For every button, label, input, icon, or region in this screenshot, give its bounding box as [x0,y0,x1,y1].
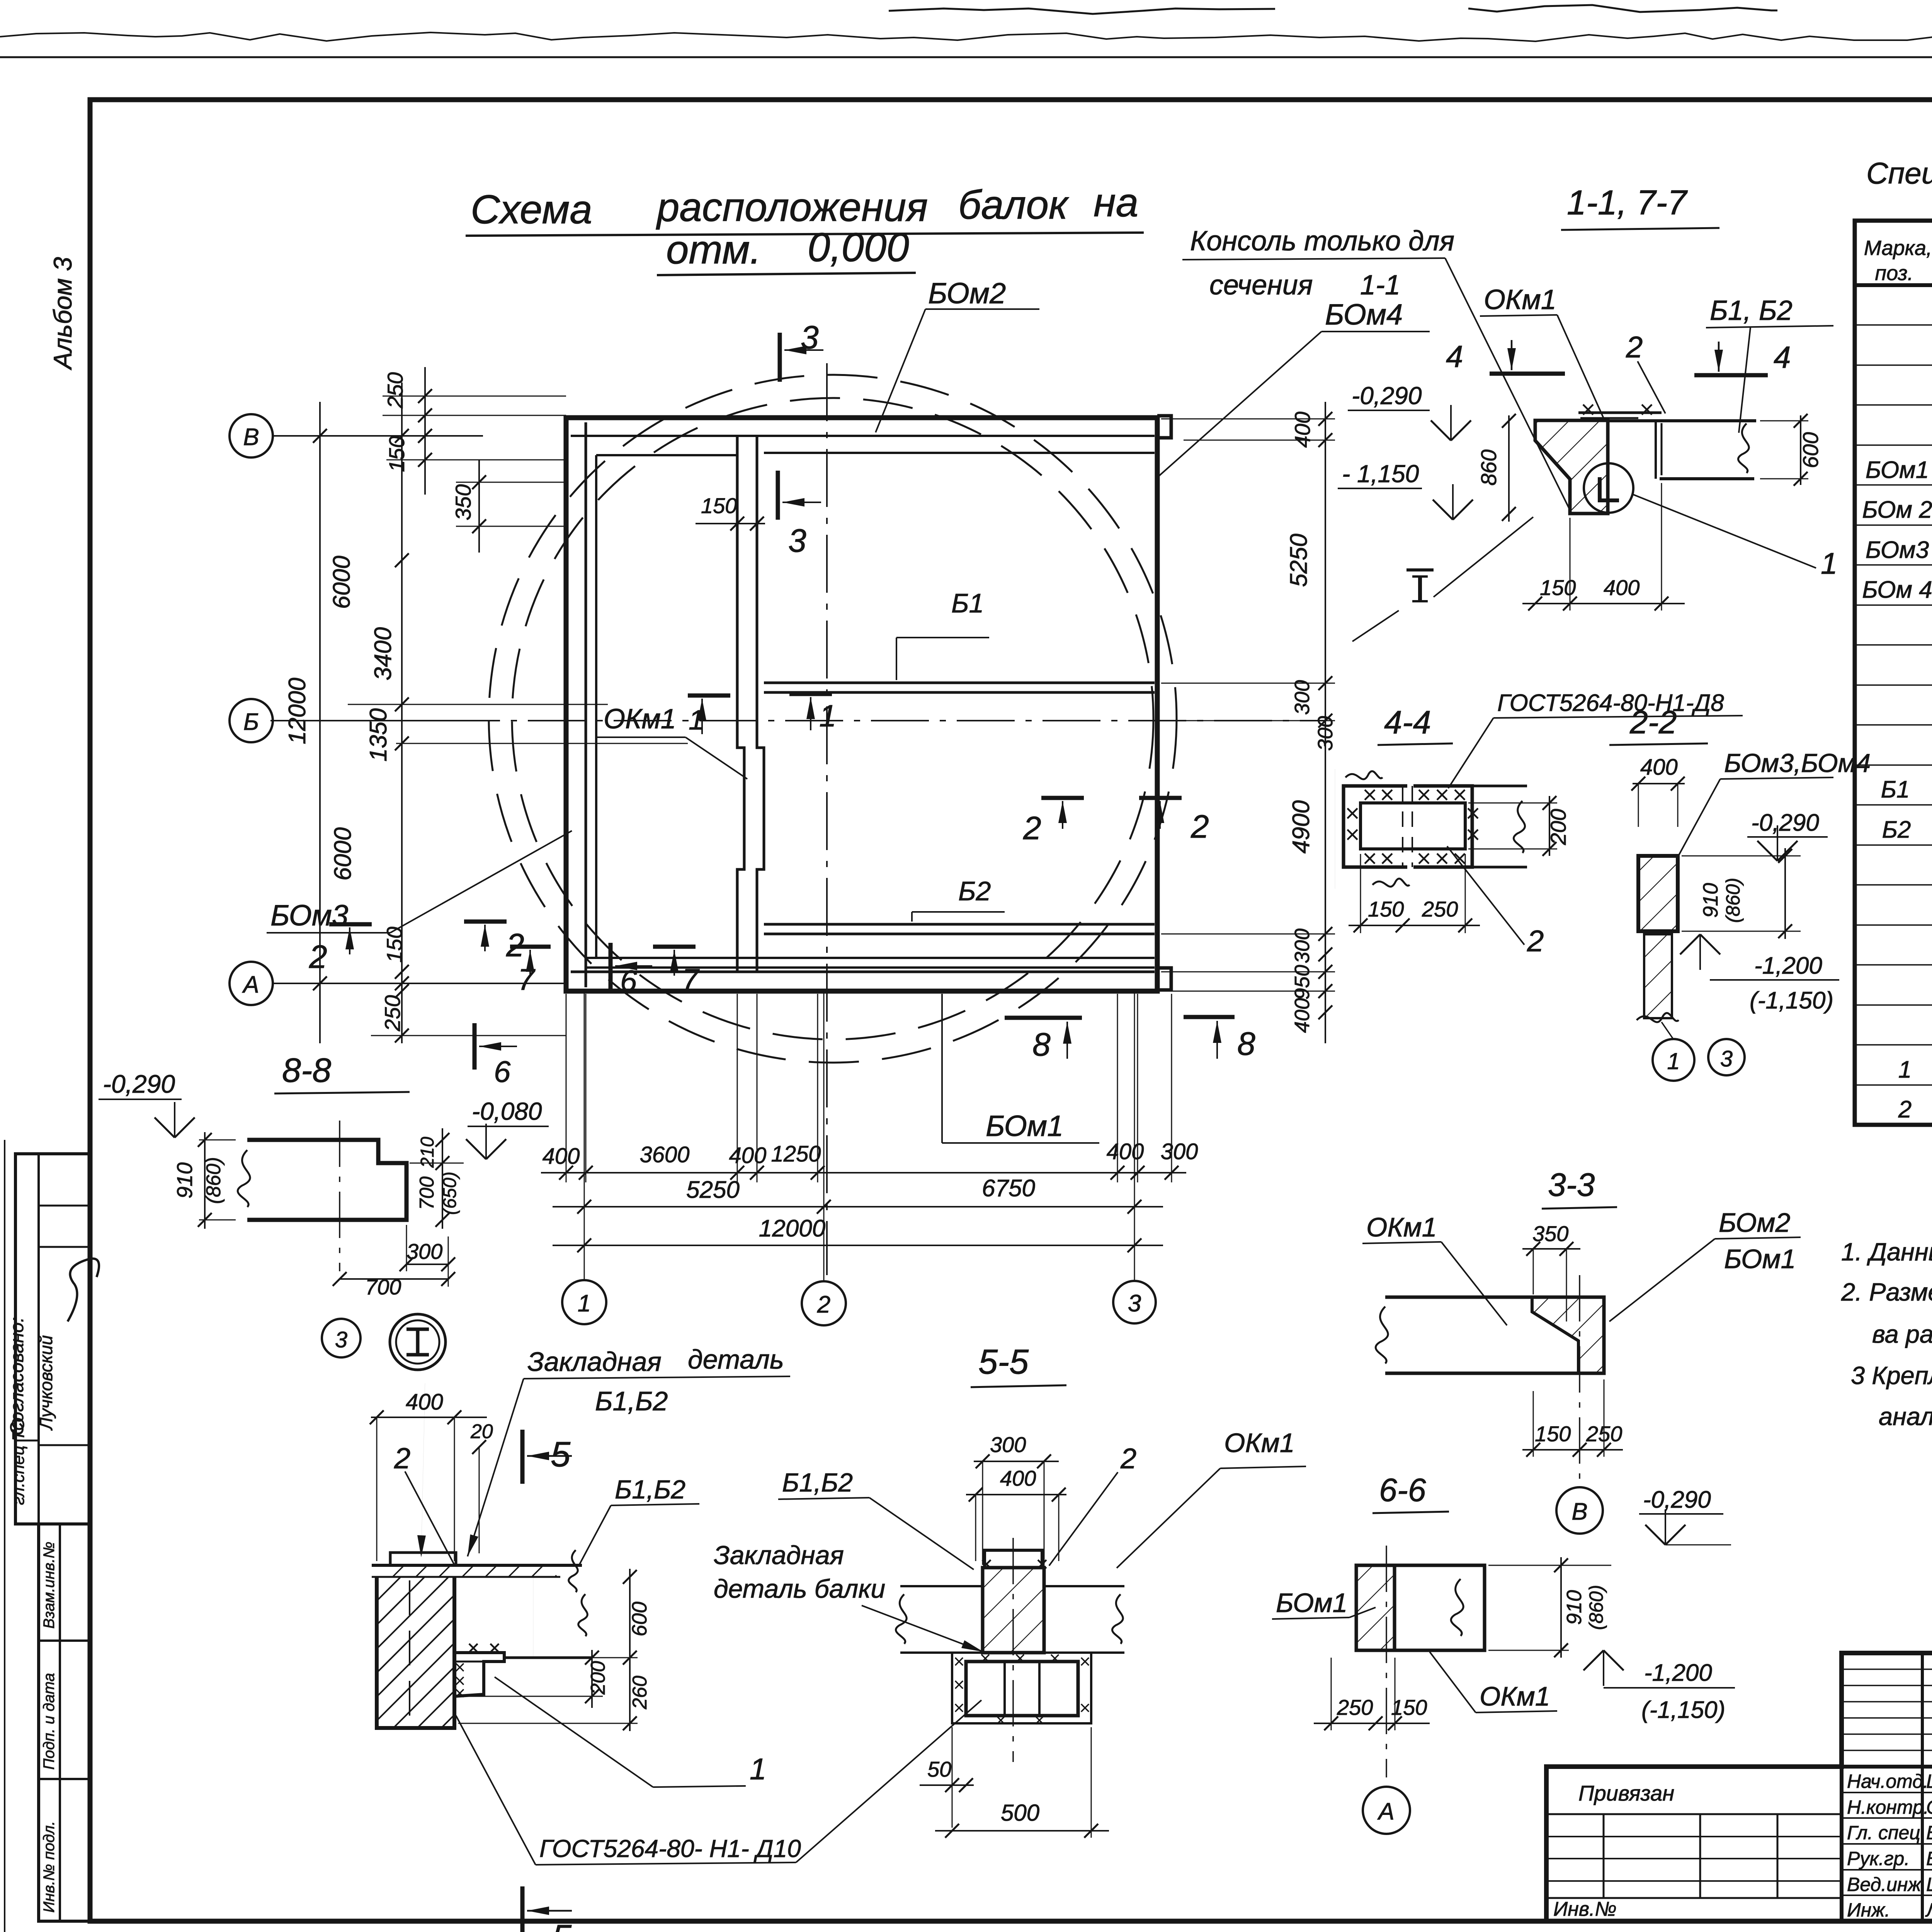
1-1 rigel inner lines [1655,421,1657,479]
svg-text:250: 250 [383,372,407,408]
svg-text:910: 910 [172,1162,197,1198]
plan: top wall inner line [571,435,1155,437]
axis line V [272,435,483,437]
svg-text:2. Размеры и отметки в с: 2. Размеры и отметки в скобках для откры… [1841,1278,1932,1306]
svg-text:Б1,Б2: Б1,Б2 [782,1468,853,1497]
svg-text:Альбом 3: Альбом 3 [48,257,77,371]
bottom extension lines [566,994,567,1182]
1-1 concrete console hatched [1535,420,1608,514]
1-1 top plate [1578,412,1662,414]
6-6 axis circle A [1363,1787,1410,1834]
svg-text:БОм1: БОм1 [1276,1588,1347,1618]
svg-text:400: 400 [1290,412,1315,447]
svg-text:300: 300 [990,1432,1026,1457]
4-4 dim 200 [1549,796,1550,856]
svg-text:БОм 4: БОм 4 [1862,577,1932,603]
bottom dim row 1 [541,1172,1186,1173]
svg-text:8: 8 [1237,1026,1255,1062]
section marker 6 outside [473,1023,477,1070]
beam B1 plan [764,682,1155,684]
svg-text:5: 5 [551,1435,571,1474]
plan: top-right wall tab [1157,416,1171,438]
svg-text:Привязан: Привязан [1578,1781,1674,1805]
svg-text:БОм4: БОм4 [1325,298,1403,331]
2-2 extension lines [1638,784,1639,827]
svg-text:4: 4 [1774,340,1791,374]
svg-text:Лучковский: Лучковский [36,1335,56,1431]
svg-text:Рук.гр.: Рук.гр. [1847,1848,1910,1869]
svg-text:БОм3,БОм4: БОм3,БОм4 [1724,748,1871,778]
section marker 2 outside left [329,922,372,927]
svg-text:БОм2: БОм2 [928,277,1006,310]
svg-text:БОм1: БОм1 [1866,457,1929,483]
node beam edge right [504,1656,591,1659]
right extension lines [1161,418,1335,420]
svg-text:деталь: деталь [688,1344,784,1374]
axis circle 1 [562,1280,606,1324]
svg-text:(650): (650) [440,1172,460,1215]
section marker 7 inner [653,945,696,949]
1-1 dim 600 [1800,415,1801,485]
svg-text:В: В [243,424,259,451]
svg-text:2-2: 2-2 [1629,704,1677,740]
svg-text:500: 500 [1001,1800,1039,1826]
svg-text:2: 2 [1190,808,1209,845]
svg-text:2: 2 [1898,1096,1912,1123]
section marker 1 right [789,692,832,696]
svg-text:-1,200: -1,200 [1754,952,1822,979]
svg-text:300: 300 [1291,680,1314,715]
svg-text:200: 200 [587,1661,609,1695]
svg-text:6: 6 [620,964,637,998]
2-2 dim 910 (860) [1784,848,1786,939]
node hatched wall column [377,1577,454,1728]
svg-text:910: 910 [1563,1590,1586,1625]
3-3 centerline [1579,1275,1580,1482]
svg-text:ГОСТ5264-80-Н1-Д8: ГОСТ5264-80-Н1-Д8 [1497,690,1724,716]
svg-text:700: 700 [365,1275,401,1299]
svg-text:700: 700 [416,1177,438,1210]
8-8 node circle I [390,1314,446,1370]
svg-text:(-1,150): (-1,150) [1641,1697,1725,1723]
svg-text:ОКм1: ОКм1 [1480,1681,1550,1711]
svg-text:6000: 6000 [328,556,355,609]
svg-text:2: 2 [1527,924,1544,958]
svg-text:3: 3 [335,1327,347,1352]
svg-text:400: 400 [1107,1139,1144,1164]
4-4 dims 150 250 [1349,925,1480,926]
svg-text:6-6: 6-6 [1379,1472,1426,1508]
svg-text:Б2: Б2 [958,876,991,906]
svg-text:Лактионов: Лактионов [1925,1899,1932,1921]
svg-text:910: 910 [1699,883,1722,918]
svg-text:300: 300 [1291,929,1314,963]
svg-text:Сокольская: Сокольская [1926,1796,1932,1818]
svg-text:отм.: отм. [666,227,761,272]
svg-text:Б1, Б2: Б1, Б2 [1710,295,1793,326]
svg-text:ОКм1: ОКм1 [1224,1428,1295,1458]
svg-text:Инж.: Инж. [1847,1899,1890,1921]
svg-text:5: 5 [552,1918,572,1932]
svg-text:- 1,150: - 1,150 [1342,460,1419,488]
1-1 dims 150 400 [1522,603,1685,604]
section marker 8 below right [1184,1015,1235,1019]
svg-text:-0,290: -0,290 [1643,1486,1711,1513]
4-4 inner plate [1361,803,1465,849]
4-4 outer block [1344,786,1407,867]
svg-text:Власенко: Власенко [1926,1822,1932,1844]
svg-text:250: 250 [1337,1695,1373,1719]
4-4 joint dashed [1402,786,1403,867]
svg-text:гл.спец ТО: гл.спец ТО [9,1418,28,1505]
svg-text:350: 350 [1532,1221,1568,1246]
svg-text:2: 2 [1120,1442,1136,1475]
pos 3 circle left [341,1338,342,1338]
svg-text:Б1,Б2: Б1,Б2 [615,1475,685,1504]
right dim line [1325,402,1326,1043]
plan: bottom-right wall tab [1157,968,1171,990]
5-5 column hatched [983,1568,1044,1653]
6-6 dim 910 (860) [1560,1557,1562,1658]
4-4 dim line 4900 left (plan dims shared) [1335,769,1335,889]
node dims 600 200 260 [629,1569,631,1665]
axis line B [272,720,483,721]
plan: beam line bottom [586,957,1155,959]
section marker 2 right room [1041,796,1084,800]
approval stamp upper [15,1154,90,1524]
svg-text:50: 50 [927,1757,951,1781]
6-6 hatched column [1356,1565,1395,1650]
svg-text:3600: 3600 [639,1142,689,1167]
6-6 wall [1356,1565,1485,1650]
svg-text:1: 1 [1821,546,1837,580]
svg-text:400: 400 [543,1144,580,1169]
8-8 dims left 910(860) [199,1139,236,1141]
svg-text:БОм1: БОм1 [1724,1244,1796,1274]
svg-text:Б: Б [243,709,259,735]
svg-text:В: В [1571,1498,1587,1525]
svg-text:250: 250 [380,995,405,1031]
node marker 5 bottom [520,1886,525,1932]
1-1 node circle [1584,463,1633,513]
svg-text:7: 7 [518,963,536,997]
2-2 elevation -1.200 [1680,934,1700,954]
5-5 beam lines right [1044,1585,1124,1587]
svg-text:4-4: 4-4 [1384,704,1431,740]
5-5 beam lines left [900,1585,983,1587]
svg-text:1-1: 1-1 [1360,270,1400,301]
plan: centerline horizontal [270,720,1325,721]
svg-text:5-5: 5-5 [978,1343,1029,1381]
spec table grid [1855,221,1932,1125]
section marker 1 left [688,694,730,698]
beam B2 plan [764,923,1155,926]
svg-text:400: 400 [1640,755,1678,780]
svg-text:3: 3 [1720,1046,1733,1071]
svg-text:Инв.№ подл.: Инв.№ подл. [41,1821,58,1913]
5-5 top closure plate [985,1550,1042,1568]
svg-text:-0,290: -0,290 [103,1070,175,1098]
svg-text:ОКм1: ОКм1 [1366,1212,1437,1242]
6-6 dims 250 150 [1314,1723,1430,1724]
section marker 6 inner [609,943,613,989]
svg-text:860: 860 [1476,449,1501,485]
svg-text:400: 400 [1000,1466,1036,1490]
svg-text:Б2: Б2 [1882,816,1911,843]
svg-text:ва работ ( сборно- монолитный: ва работ ( сборно- монолитный вариант). [1872,1320,1932,1348]
axis circle B [230,699,273,742]
svg-text:2: 2 [1626,330,1643,364]
svg-text:150: 150 [1391,1695,1427,1719]
svg-text:5250: 5250 [686,1177,740,1203]
svg-text:20: 20 [470,1420,493,1443]
3-3 axis circle V [1556,1487,1603,1534]
8-8 wall section [247,1140,406,1220]
svg-text:12000: 12000 [759,1215,825,1242]
svg-text:8: 8 [1032,1026,1051,1063]
axis circle 2 [802,1281,846,1325]
title block staff rows [1842,1792,1932,1793]
svg-text:ОКм1: ОКм1 [1484,284,1556,315]
paper edge left [4,1140,5,1932]
svg-text:3: 3 [1128,1290,1141,1317]
node corbel bracket [454,1653,504,1696]
svg-text:поз.: поз. [1875,262,1913,285]
left dim line 6000/3400/1350/6000 [401,383,403,1043]
section marker 2 left room [464,920,507,924]
scan edge top [0,32,1932,41]
svg-text:(860): (860) [1722,878,1744,923]
4-4 weld x marks [1365,790,1375,800]
svg-text:12000: 12000 [284,678,311,744]
plan: partition wall with jog [737,436,744,972]
svg-text:Н.контр.: Н.контр. [1847,1796,1929,1818]
privyazan table [1546,1813,1842,1815]
svg-text:Консоль только для: Консоль только для [1190,226,1454,257]
node slab lines [372,1564,582,1567]
svg-text:Подп. и дата: Подп. и дата [41,1673,58,1770]
svg-text:Шейко: Шейко [1926,1770,1932,1792]
svg-text:БОм 2: БОм 2 [1862,497,1932,523]
svg-text:6750: 6750 [982,1175,1035,1202]
section marker 3 top [778,333,782,382]
svg-text:балок: балок [958,182,1069,228]
plan: bottom wall inner line [571,971,1155,973]
svg-text:1: 1 [819,699,837,733]
svg-text:5250: 5250 [1286,534,1312,587]
svg-text:Б1,Б2: Б1,Б2 [595,1386,668,1416]
svg-text:А: А [1377,1798,1394,1825]
svg-text:150: 150 [384,436,409,472]
plan: left room beam line BOm3 [595,455,597,958]
svg-text:600: 600 [628,1602,651,1636]
left extension lines [383,396,566,397]
svg-text:на: на [1094,180,1138,225]
5-5 weld x marks [955,1658,963,1665]
svg-text:Закладная: Закладная [527,1347,662,1377]
1-1 beam slab [1608,419,1756,422]
8-8 dim 300 [406,1264,448,1265]
left dim line 12000 [319,402,321,1043]
svg-text:1: 1 [1667,1048,1680,1074]
svg-text:аналогично узлу I: аналогично узлу I [1879,1402,1932,1430]
svg-text:210: 210 [417,1137,438,1168]
svg-text:деталь балки: деталь балки [714,1574,885,1604]
svg-text:Боровик: Боровик [1926,1848,1932,1869]
svg-text:Марка,: Марка, [1864,236,1932,260]
svg-text:3: 3 [801,319,819,355]
svg-text:3-3: 3-3 [1548,1167,1595,1203]
bottom dim row 2 [553,1206,1163,1207]
svg-text:1. Данный лист рассматривать: 1. Данный лист рассматривать совместно с… [1841,1238,1932,1266]
svg-text:2: 2 [394,1442,410,1475]
plan: centerline vertical axis 2 [826,363,828,1275]
svg-text:1: 1 [1898,1056,1912,1083]
title block mini grid [1842,1668,1932,1670]
svg-text:400: 400 [1291,998,1314,1033]
svg-text:3 Крепление балок Б1 и Б2: 3 Крепление балок Б1 и Б2 к БОм 3 и БОм … [1851,1361,1932,1389]
svg-text:БОм1: БОм1 [986,1110,1063,1143]
svg-text:150: 150 [701,493,737,518]
bottom dim row 3 [553,1245,1163,1246]
8-8 dims right 210 700(650) [410,1163,464,1164]
title block outline [1546,1653,1932,1921]
plan: left wall inner line [585,422,587,987]
svg-text:1250: 1250 [771,1141,821,1167]
svg-text:350: 350 [451,484,475,520]
svg-text:(-1,150): (-1,150) [1750,987,1833,1014]
1-1 marker 4 right [1694,373,1768,378]
svg-text:150: 150 [1368,897,1404,921]
plan: beam line top [764,452,1155,454]
svg-text:1: 1 [750,1752,766,1786]
2-2 pos circles 1 3 [1662,1022,1673,1039]
axis circle V [230,414,273,457]
svg-text:сечения: сечения [1209,270,1313,301]
svg-text:1-1, 7-7: 1-1, 7-7 [1567,184,1688,222]
svg-text:расположения: расположения [656,185,928,230]
svg-text:Б1: Б1 [951,588,984,618]
svg-text:ГОСТ5264-80- Н1- Д10: ГОСТ5264-80- Н1- Д10 [539,1835,801,1862]
svg-text:600: 600 [1798,432,1823,468]
svg-text:1: 1 [578,1290,591,1317]
svg-text:ОКм1: ОКм1 [604,704,676,735]
svg-text:6: 6 [494,1054,511,1088]
svg-text:А: А [241,971,259,998]
plan: dashed tank circles [489,375,1177,1063]
svg-text:Инв.№: Инв.№ [1553,1898,1617,1920]
svg-text:-1,200: -1,200 [1644,1660,1712,1686]
node top plate [390,1553,456,1565]
svg-text:Спецификация: Спецификация [1866,156,1932,190]
svg-text:300: 300 [1314,716,1337,751]
svg-text:2: 2 [817,1291,830,1318]
svg-text:300: 300 [1161,1139,1198,1164]
3-3 wall with hatched beam [1385,1297,1604,1373]
svg-text:Закладная: Закладная [714,1541,844,1570]
5-5 bottom box [952,1653,1091,1723]
5-5 channel MC2 [966,1662,1078,1716]
section marker 8 below left [1005,1016,1082,1020]
svg-text:-0,080: -0,080 [472,1097,542,1125]
3-3 dims 150 250 [1522,1449,1623,1451]
svg-text:4: 4 [1446,339,1463,374]
2-2 column lower [1644,934,1672,1018]
svg-text:БОм3: БОм3 [1866,537,1929,563]
svg-text:260: 260 [629,1676,651,1710]
svg-text:БОм2: БОм2 [1719,1207,1790,1238]
svg-text:Схема: Схема [471,187,592,232]
svg-text:150: 150 [1535,1422,1571,1446]
6-6 elevation -1.200 [1583,1650,1604,1670]
svg-text:1350: 1350 [365,708,392,762]
svg-text:-0,290: -0,290 [1352,382,1422,410]
plan: outer walls [566,418,1157,991]
svg-text:2: 2 [309,939,327,975]
svg-text:БОм3: БОм3 [270,899,348,932]
svg-text:7: 7 [682,963,700,997]
4-4 break marks [1345,771,1383,779]
svg-text:3400: 3400 [370,627,396,680]
2-2 column upper [1638,856,1678,931]
1-1 marker 4 left [1490,372,1565,376]
svg-text:Вед.инж: Вед.инж [1847,1874,1922,1895]
svg-text:Штандий: Штандий [1926,1874,1932,1895]
svg-text:950: 950 [1291,965,1314,1000]
1-1 dim 860 [1508,415,1510,522]
8-8 dim 700 [340,1278,448,1280]
svg-text:0,000: 0,000 [808,225,909,270]
svg-text:Б1: Б1 [1881,776,1910,803]
svg-text:(860): (860) [1585,1585,1607,1630]
svg-text:2: 2 [1023,810,1041,846]
svg-text:250: 250 [1422,897,1458,921]
left small dims 250/150/350 top [424,367,426,495]
svg-text:-0,290: -0,290 [1751,810,1819,836]
section marker 2 outside right [1139,796,1182,800]
5-5 centerline [1012,1538,1014,1762]
svg-text:6000: 6000 [330,827,356,881]
section marker 7 left room [510,945,551,949]
inventory stamp lower [39,1524,90,1921]
axis line A [272,983,564,984]
8-8 centerline [339,1121,340,1271]
node marker 5 top [520,1430,525,1484]
section marker 3 inner [776,471,780,520]
6-6 break [1451,1579,1463,1636]
svg-text:300: 300 [406,1239,442,1264]
svg-text:200: 200 [1546,809,1570,845]
svg-text:Взам.инв.№: Взам.инв.№ [41,1542,58,1629]
8-8 axis circle 3 [322,1319,361,1357]
axis circle A [230,962,273,1005]
svg-text:3: 3 [788,522,806,559]
svg-text:400: 400 [1604,575,1639,600]
svg-text:Гл. спец.: Гл. спец. [1847,1822,1926,1844]
svg-text:4900: 4900 [1288,800,1315,854]
svg-text:Нач.отд.: Нач.отд. [1847,1770,1929,1792]
svg-text:8-8: 8-8 [282,1051,331,1089]
axis circle 3 [1113,1281,1156,1323]
6-6 centerline [1386,1546,1387,1777]
1-1 node mark I [1406,568,1434,571]
svg-text:400: 400 [729,1143,767,1168]
svg-text:(860): (860) [202,1157,225,1204]
